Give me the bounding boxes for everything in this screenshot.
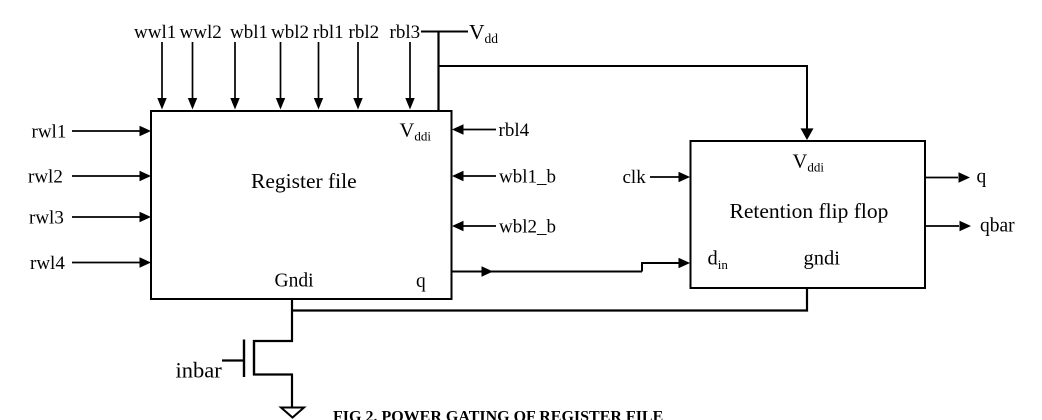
node rbl4 [499,120,530,141]
wire wbl1_b arrow into Register file [452,171,496,182]
node wbl2 [271,22,309,43]
pin Vddi of Retention flip flop [793,151,825,175]
svg-text:Gndi: Gndi [275,271,315,292]
node clk [623,167,647,188]
svg-text:Register file: Register file [251,169,357,193]
pin q of Register file [416,271,426,292]
node wwl2 [180,22,222,43]
block Retention flip flop [691,141,926,288]
node q output [977,167,987,188]
wire wbl2 arrow into Register file [276,42,285,110]
wire wbl2_b arrow into Register file [452,221,496,232]
svg-text:rbl4: rbl4 [499,120,530,141]
svg-text:Vddi: Vddi [400,120,432,144]
node rwl2 [28,167,63,188]
node wbl2_b [499,217,556,238]
svg-text:clk: clk [623,167,647,188]
node wwl1 [134,22,176,43]
svg-text:q: q [416,271,426,292]
svg-text:wbl2: wbl2 [271,22,309,43]
wire wwl2 arrow into Register file [188,42,197,110]
svg-text:rbl1: rbl1 [313,22,344,43]
svg-text:wwl2: wwl2 [180,22,222,43]
svg-text:rwl2: rwl2 [28,167,63,188]
svg-text:din: din [708,248,729,273]
wire rbl3 arrow into Register file [405,42,414,110]
svg-text:wbl1_b: wbl1_b [499,167,556,188]
wire clk arrow into Retention flip flop [650,172,690,183]
wire q of Register file to din of Retention flip flop [452,258,690,277]
svg-text:wwl1: wwl1 [134,22,176,43]
transistor Q1 sleep transistor NMOS [222,340,293,408]
node wbl1 [230,22,268,43]
wire wwl1 arrow into Register file [157,42,166,110]
ground [281,408,304,418]
svg-text:rbl3: rbl3 [390,22,421,43]
wire rbl3 to Vdd [421,31,468,33]
svg-text:q: q [977,167,987,188]
wire q output arrow [925,172,970,183]
caption FIG 2 POWER GATING OF REGISTER FILE [333,409,663,420]
wire rwl3 arrow into Register file [72,212,151,223]
node rbl3 [390,22,421,43]
node wbl1_b [499,167,556,188]
node inbar gate of sleep transistor [176,358,223,383]
svg-text:Retention flip flop: Retention flip flop [730,199,889,223]
svg-text:wbl2_b: wbl2_b [499,217,556,238]
pin din of Retention flip flop [708,248,729,273]
wire wbl1 arrow into Register file [230,42,239,110]
wire qbar output arrow [925,221,971,232]
pin gndi of Retention flip flop [804,248,841,270]
node qbar output [980,216,1015,237]
svg-text:FIG 2. POWER GATING OF REGIST: FIG 2. POWER GATING OF REGISTER FILE [333,409,663,420]
svg-text:wbl1: wbl1 [230,22,268,43]
svg-text:Vddi: Vddi [793,151,825,175]
wire rbl2 arrow into Register file [353,42,362,110]
svg-text:rwl3: rwl3 [29,208,64,229]
wire gndi of Retention flip flop to sleep transistor drain [292,288,807,311]
node rwl4 [30,253,65,274]
svg-text:qbar: qbar [980,216,1015,237]
wire rwl1 arrow into Register file [72,126,151,137]
svg-text:rbl2: rbl2 [349,22,380,43]
node rbl2 [349,22,380,43]
node rwl3 [29,208,64,229]
wire rbl1 arrow into Register file [314,42,323,110]
wire rbl4 arrow into Register file [452,124,496,135]
svg-text:rwl1: rwl1 [32,122,67,143]
pin Gndi of Register file [275,271,315,292]
node Vdd [469,20,498,46]
svg-text:gndi: gndi [804,248,841,270]
pin Vddi of Register file [400,120,432,144]
wire Vdd branch over to Retention flip flop [439,66,814,140]
svg-text:Vdd: Vdd [469,20,498,46]
block Register file [151,111,452,299]
wire rwl2 arrow into Register file [72,171,151,182]
svg-text:rwl4: rwl4 [30,253,65,274]
wire Vdd down to Register file top [437,31,439,112]
wire Gndi of Register file down to sleep transistor [291,299,293,342]
node rbl1 [313,22,344,43]
node rwl1 [32,122,67,143]
svg-text:inbar: inbar [176,358,223,383]
wire rwl4 arrow into Register file [72,257,151,268]
